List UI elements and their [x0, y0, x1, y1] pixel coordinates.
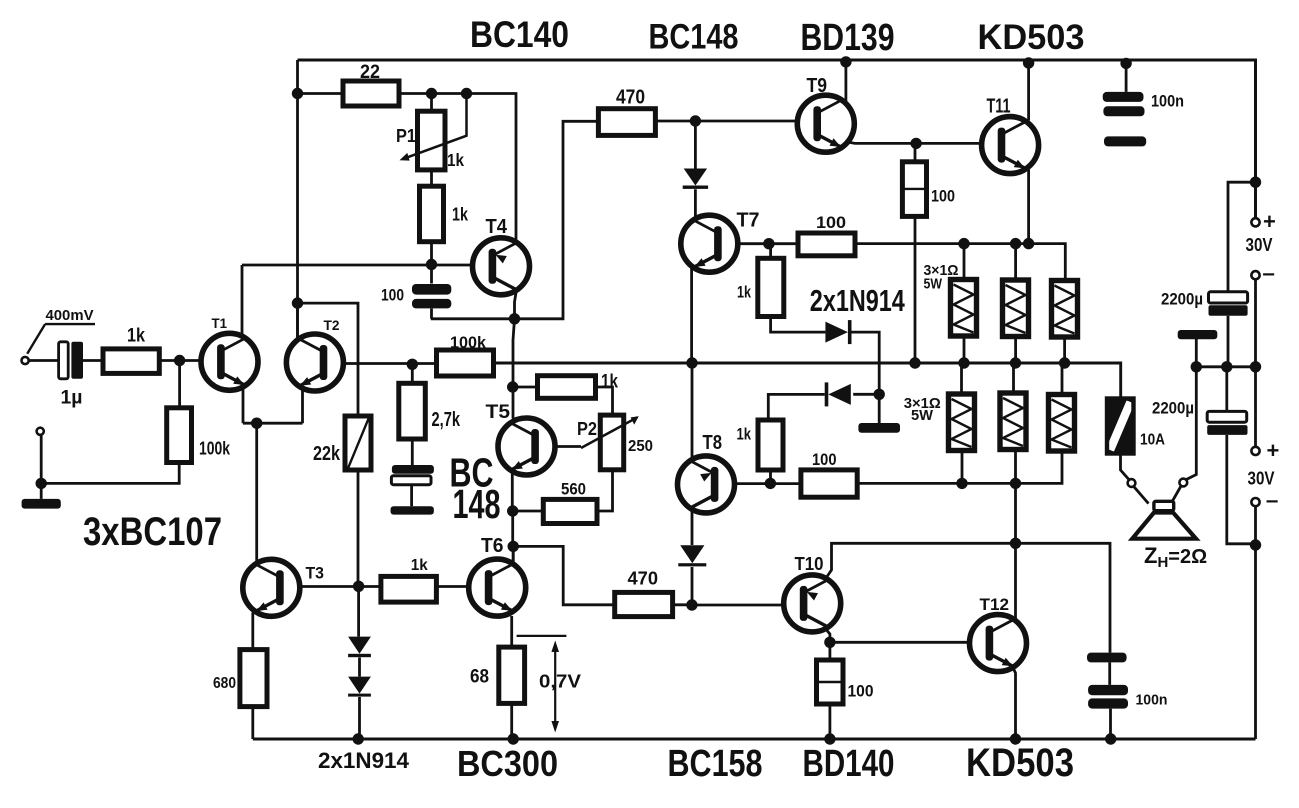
- svg-text:BC300: BC300: [457, 743, 558, 784]
- svg-text:5W: 5W: [924, 276, 943, 293]
- svg-text:2200µ: 2200µ: [1152, 399, 1194, 418]
- svg-text:680: 680: [213, 675, 236, 692]
- svg-text:T9: T9: [807, 75, 828, 97]
- svg-text:30V: 30V: [1246, 235, 1273, 255]
- svg-text:2200µ: 2200µ: [1161, 290, 1203, 309]
- svg-text:T2: T2: [324, 318, 340, 333]
- svg-text:2,7k: 2,7k: [432, 409, 461, 431]
- svg-text:400mV: 400mV: [46, 307, 94, 324]
- svg-text:1k: 1k: [601, 372, 618, 393]
- svg-text:148: 148: [453, 481, 501, 527]
- svg-text:100n: 100n: [1136, 692, 1168, 709]
- svg-text:30V: 30V: [1248, 469, 1275, 489]
- svg-text:BC140: BC140: [470, 14, 569, 55]
- svg-text:T10: T10: [795, 554, 824, 574]
- svg-text:1k: 1k: [452, 205, 469, 225]
- svg-text:T6: T6: [481, 535, 504, 557]
- svg-text:T7: T7: [737, 210, 760, 232]
- svg-text:2x1N914: 2x1N914: [810, 283, 906, 318]
- svg-text:100: 100: [381, 286, 404, 305]
- svg-text:560: 560: [561, 480, 586, 499]
- svg-text:BC148: BC148: [649, 18, 739, 57]
- svg-text:T8: T8: [703, 432, 723, 454]
- svg-text:+: +: [1263, 209, 1276, 234]
- svg-text:KD503: KD503: [966, 741, 1074, 785]
- svg-text:100: 100: [812, 450, 837, 469]
- svg-text:68: 68: [470, 667, 489, 688]
- svg-text:T3: T3: [306, 564, 325, 583]
- svg-text:BC158: BC158: [668, 743, 763, 785]
- svg-text:BD139: BD139: [801, 17, 895, 59]
- svg-text:T4: T4: [486, 216, 508, 238]
- svg-text:ZH=2Ω: ZH=2Ω: [1144, 543, 1207, 571]
- svg-text:T5: T5: [486, 402, 511, 423]
- svg-text:0,7V: 0,7V: [539, 672, 581, 692]
- svg-text:1k: 1k: [127, 326, 145, 347]
- svg-text:3xBC107: 3xBC107: [83, 510, 222, 554]
- svg-text:−: −: [1262, 264, 1275, 286]
- svg-text:100: 100: [848, 682, 874, 701]
- svg-text:+: +: [1267, 438, 1280, 463]
- svg-text:100: 100: [931, 187, 955, 206]
- svg-text:KD503: KD503: [978, 18, 1085, 57]
- svg-text:100n: 100n: [1151, 92, 1184, 111]
- svg-text:1k: 1k: [737, 425, 752, 444]
- svg-text:1k: 1k: [411, 557, 428, 574]
- svg-text:1µ: 1µ: [61, 388, 83, 409]
- svg-text:100k: 100k: [199, 439, 231, 459]
- svg-text:1k: 1k: [447, 150, 464, 170]
- svg-text:T11: T11: [987, 96, 1011, 118]
- svg-text:P2: P2: [577, 419, 597, 439]
- svg-text:T12: T12: [980, 595, 1010, 614]
- svg-text:22: 22: [360, 62, 380, 83]
- svg-text:P1: P1: [396, 126, 416, 146]
- svg-text:470: 470: [616, 87, 645, 109]
- svg-text:2x1N914: 2x1N914: [318, 748, 410, 773]
- svg-text:BD140: BD140: [803, 743, 895, 785]
- svg-text:10A: 10A: [1140, 432, 1165, 449]
- svg-text:−: −: [1266, 491, 1279, 513]
- svg-text:250: 250: [628, 438, 653, 455]
- svg-text:T1: T1: [212, 316, 228, 331]
- svg-text:100k: 100k: [450, 333, 487, 352]
- svg-text:5W: 5W: [911, 407, 934, 424]
- svg-text:22k: 22k: [313, 443, 341, 465]
- svg-text:470: 470: [628, 569, 659, 589]
- svg-text:100: 100: [816, 213, 846, 232]
- svg-text:1k: 1k: [737, 283, 751, 302]
